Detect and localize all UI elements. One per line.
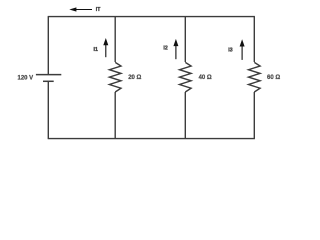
wire top xyxy=(48,16,255,18)
resistor R1 20 ohm xyxy=(109,62,121,92)
wire branch 2 upper xyxy=(184,17,186,62)
wire right upper xyxy=(253,17,255,62)
current arrow I1 xyxy=(105,44,107,57)
svg-text:I2: I2 xyxy=(163,46,167,52)
wire left upper xyxy=(47,17,49,75)
svg-text:40 Ω: 40 Ω xyxy=(199,75,212,81)
wire branch 1 upper xyxy=(114,17,116,62)
resistor R2 40 ohm xyxy=(180,62,192,92)
current arrow IT xyxy=(76,9,92,11)
svg-text:120 V: 120 V xyxy=(18,76,34,82)
svg-text:I1: I1 xyxy=(94,47,98,53)
wire bottom xyxy=(48,138,255,140)
svg-text:20 Ω: 20 Ω xyxy=(128,75,141,81)
wire left lower xyxy=(47,81,49,138)
wire branch 1 lower xyxy=(114,92,116,139)
svg-text:60 Ω: 60 Ω xyxy=(267,75,280,81)
wire right lower xyxy=(253,92,255,139)
battery B1 plate short xyxy=(43,80,54,82)
svg-text:IT: IT xyxy=(96,7,101,13)
current arrow I2 xyxy=(175,45,177,59)
resistor R3 60 ohm xyxy=(249,62,261,92)
wire branch 2 lower xyxy=(184,92,186,139)
battery B1 plate long xyxy=(36,74,61,76)
svg-text:I3: I3 xyxy=(228,48,232,54)
current arrow I3 xyxy=(241,46,243,60)
